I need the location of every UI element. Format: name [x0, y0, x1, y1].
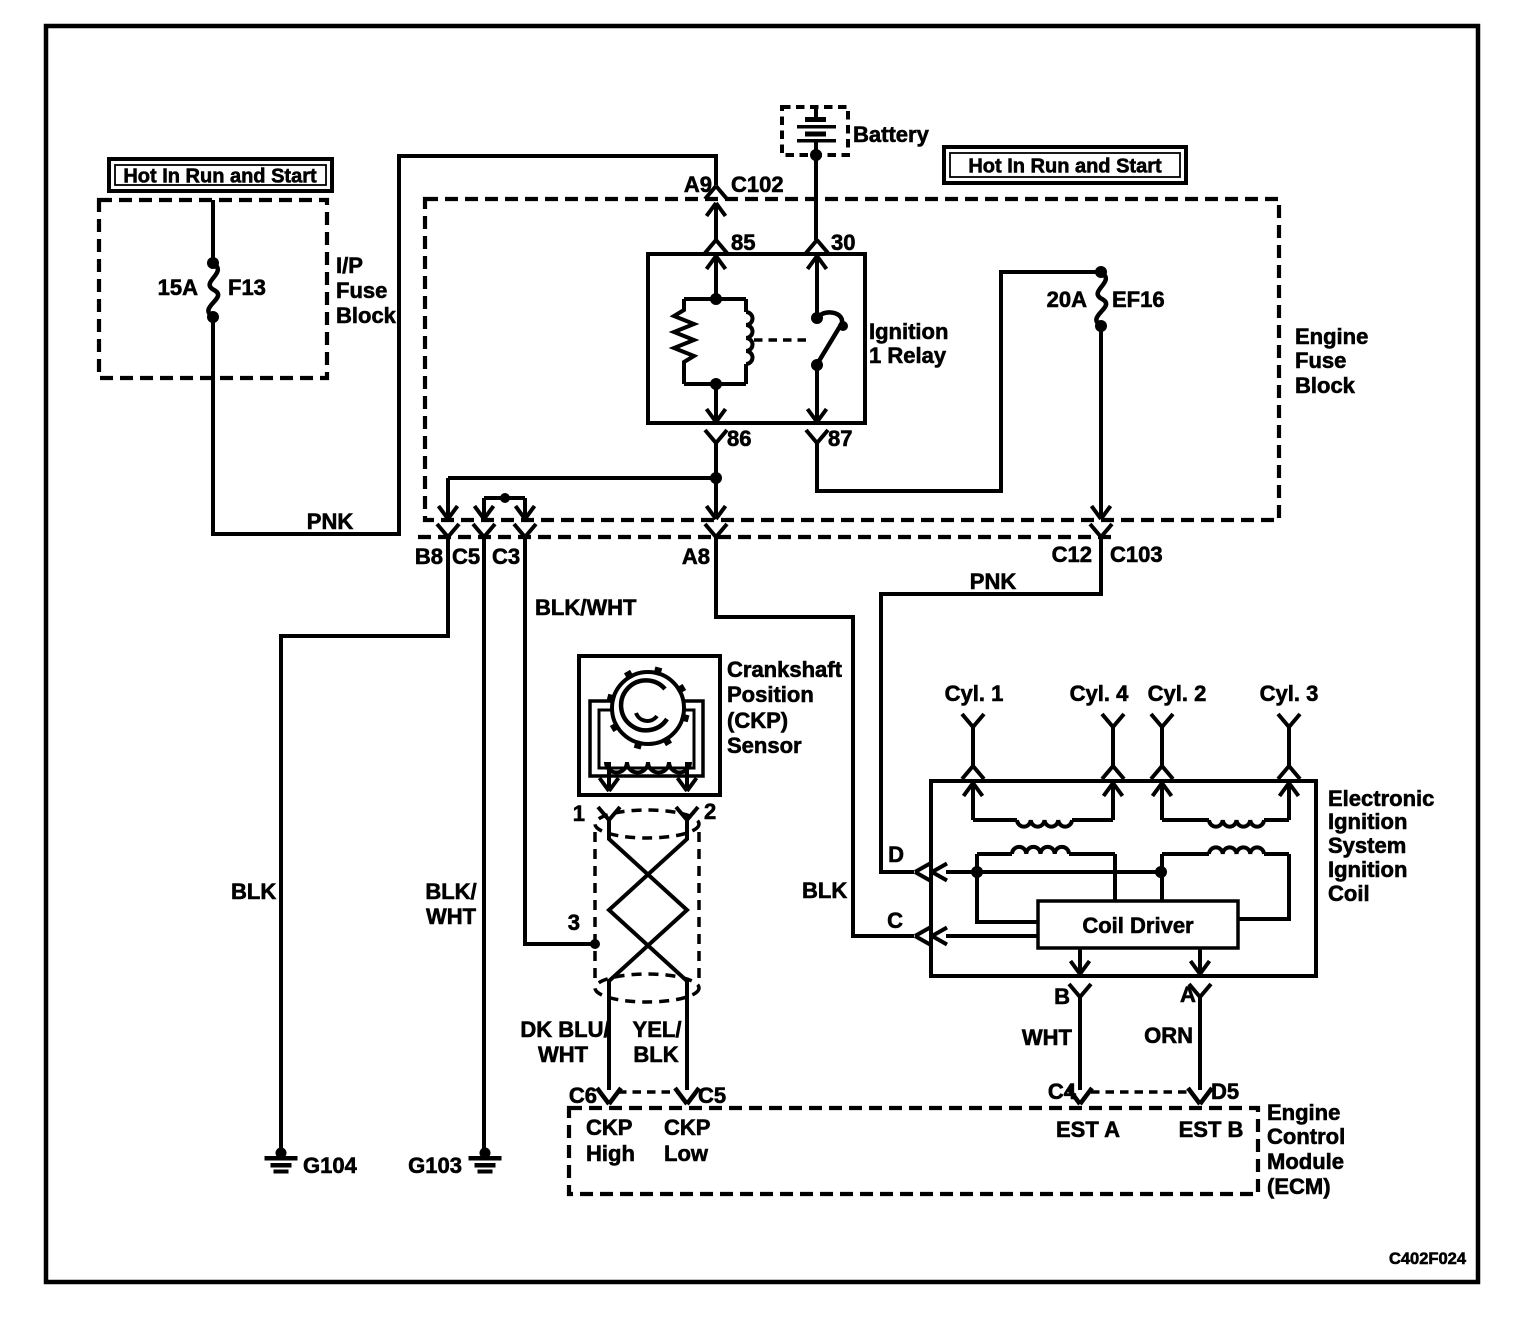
svg-text:D: D — [888, 842, 904, 867]
svg-text:EST A: EST A — [1056, 1117, 1120, 1142]
svg-text:Block: Block — [336, 303, 397, 328]
svg-text:Block: Block — [1295, 373, 1356, 398]
svg-text:C: C — [887, 908, 903, 933]
svg-text:C102: C102 — [731, 172, 784, 197]
svg-text:Control: Control — [1267, 1124, 1345, 1149]
svg-text:C402F024: C402F024 — [1389, 1250, 1467, 1268]
svg-text:3: 3 — [568, 910, 580, 935]
svg-text:Engine: Engine — [1295, 324, 1368, 349]
svg-text:CKP: CKP — [664, 1115, 710, 1140]
svg-text:DK BLU/: DK BLU/ — [520, 1017, 609, 1042]
svg-text:85: 85 — [731, 230, 755, 255]
svg-text:D5: D5 — [1211, 1079, 1239, 1104]
svg-text:C5: C5 — [698, 1083, 726, 1108]
svg-text:PNK: PNK — [307, 509, 354, 534]
svg-text:WHT: WHT — [426, 904, 477, 929]
svg-text:Ignition: Ignition — [1328, 857, 1407, 882]
svg-text:A9: A9 — [684, 172, 712, 197]
svg-text:A: A — [1180, 982, 1196, 1007]
svg-text:BLK/: BLK/ — [425, 879, 476, 904]
svg-text:Fuse: Fuse — [1295, 348, 1346, 373]
svg-text:20A: 20A — [1047, 287, 1087, 312]
svg-text:A8: A8 — [682, 544, 710, 569]
svg-text:Coil: Coil — [1328, 881, 1370, 906]
svg-text:B8: B8 — [415, 544, 443, 569]
svg-text:Engine: Engine — [1267, 1100, 1340, 1125]
svg-text:Hot In Run and Start: Hot In Run and Start — [968, 156, 1162, 178]
svg-text:Cyl. 3: Cyl. 3 — [1260, 681, 1319, 706]
svg-text:Crankshaft: Crankshaft — [727, 657, 843, 682]
svg-text:Hot In Run and Start: Hot In Run and Start — [123, 166, 317, 188]
svg-text:1: 1 — [573, 801, 585, 826]
svg-text:Coil Driver: Coil Driver — [1082, 913, 1194, 938]
svg-text:G104: G104 — [303, 1153, 358, 1178]
svg-text:C103: C103 — [1110, 542, 1163, 567]
svg-text:1 Relay: 1 Relay — [869, 343, 947, 368]
svg-text:Battery: Battery — [853, 122, 930, 147]
svg-text:EST B: EST B — [1179, 1117, 1244, 1142]
svg-text:Sensor: Sensor — [727, 733, 802, 758]
svg-text:G103: G103 — [408, 1153, 462, 1178]
svg-text:WHT: WHT — [1022, 1025, 1073, 1050]
svg-text:High: High — [586, 1141, 635, 1166]
svg-text:ORN: ORN — [1144, 1023, 1193, 1048]
svg-text:BLK: BLK — [231, 879, 276, 904]
svg-text:30: 30 — [831, 230, 855, 255]
svg-text:C3: C3 — [492, 544, 520, 569]
svg-text:WHT: WHT — [538, 1042, 589, 1067]
svg-text:C5: C5 — [452, 544, 480, 569]
svg-text:F13: F13 — [228, 275, 266, 300]
svg-text:I/P: I/P — [336, 253, 363, 278]
svg-text:Ignition: Ignition — [1328, 809, 1407, 834]
svg-text:Low: Low — [664, 1141, 709, 1166]
svg-text:YEL/: YEL/ — [633, 1017, 682, 1042]
svg-text:Ignition: Ignition — [869, 319, 948, 344]
svg-text:2: 2 — [704, 799, 716, 824]
svg-text:Module: Module — [1267, 1149, 1344, 1174]
svg-text:Electronic: Electronic — [1328, 786, 1434, 811]
svg-text:Cyl. 4: Cyl. 4 — [1070, 681, 1129, 706]
svg-text:Cyl. 1: Cyl. 1 — [945, 681, 1004, 706]
svg-text:Position: Position — [727, 682, 814, 707]
svg-text:EF16: EF16 — [1112, 287, 1165, 312]
svg-text:(CKP): (CKP) — [727, 708, 788, 733]
svg-text:B: B — [1054, 984, 1070, 1009]
svg-text:CKP: CKP — [586, 1115, 632, 1140]
svg-text:(ECM): (ECM) — [1267, 1174, 1331, 1199]
svg-text:15A: 15A — [158, 275, 198, 300]
svg-text:Cyl. 2: Cyl. 2 — [1148, 681, 1207, 706]
svg-text:C12: C12 — [1052, 542, 1092, 567]
svg-text:C4: C4 — [1048, 1079, 1077, 1104]
svg-text:System: System — [1328, 833, 1406, 858]
svg-text:BLK: BLK — [633, 1042, 678, 1067]
svg-text:BLK/WHT: BLK/WHT — [535, 595, 637, 620]
svg-text:Fuse: Fuse — [336, 278, 387, 303]
svg-text:86: 86 — [727, 426, 751, 451]
svg-text:PNK: PNK — [970, 569, 1017, 594]
svg-text:BLK: BLK — [802, 878, 847, 903]
svg-text:C6: C6 — [569, 1083, 597, 1108]
svg-text:87: 87 — [828, 426, 852, 451]
